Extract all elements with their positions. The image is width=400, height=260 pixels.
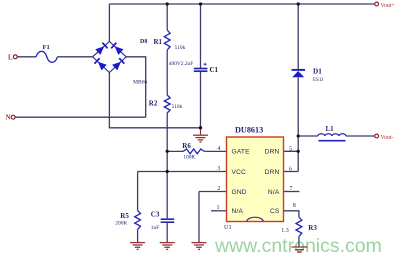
junction node pin5 xyxy=(297,150,300,153)
wire D1 column top xyxy=(297,4,299,69)
svg-text:R6: R6 xyxy=(182,142,191,150)
svg-text:200K: 200K xyxy=(115,220,127,226)
bridge diode upper-right xyxy=(111,43,123,55)
wire drain down to pins 5 and 6 xyxy=(284,136,299,172)
bridge diode lower-left xyxy=(95,58,107,70)
wire R1 column top xyxy=(166,4,168,30)
svg-text:L: L xyxy=(8,53,13,61)
svg-text:N/A: N/A xyxy=(232,208,244,215)
svg-text:CS: CS xyxy=(270,208,280,215)
bridge diode lower-right xyxy=(112,58,124,70)
svg-text:400V2.2uF: 400V2.2uF xyxy=(169,61,193,67)
svg-text:6: 6 xyxy=(289,167,292,173)
svg-text:Vout-: Vout- xyxy=(381,135,394,141)
wire R5 to ground xyxy=(137,229,139,242)
wire drain node to L1 xyxy=(298,135,318,137)
svg-text:L1: L1 xyxy=(326,125,335,133)
svg-text:ES1J: ES1J xyxy=(313,78,323,83)
svg-text:U1: U1 xyxy=(224,224,232,231)
svg-text:R3: R3 xyxy=(308,224,317,232)
wire top rail xyxy=(109,3,374,5)
svg-text:1: 1 xyxy=(217,205,220,211)
wire L input to fuse xyxy=(17,56,36,58)
inductor L1 xyxy=(318,125,346,141)
bridge rectifier MB6b diamond xyxy=(93,42,127,73)
diode D1 ES1J xyxy=(292,68,324,83)
svg-text:8: 8 xyxy=(293,203,296,209)
svg-text:Vout+: Vout+ xyxy=(381,3,395,9)
wire bridge right corner xyxy=(126,57,146,117)
junction node top rail at D1 xyxy=(297,2,300,5)
svg-text:3: 3 xyxy=(217,166,220,172)
wire R1 to R2 xyxy=(166,50,168,95)
ground under C3 xyxy=(160,243,175,250)
terminal Vout- xyxy=(375,134,394,141)
wire GND pin 2 xyxy=(199,192,227,243)
svg-text:1.3: 1.3 xyxy=(281,228,289,234)
svg-text:N: N xyxy=(6,114,11,122)
svg-text:D8: D8 xyxy=(140,39,147,45)
junction node top rail at R1 xyxy=(166,2,169,5)
svg-text:R1: R1 xyxy=(154,38,163,46)
wire R3 to ground xyxy=(298,237,300,247)
svg-text:4: 4 xyxy=(217,146,220,152)
wire C3 branch xyxy=(166,172,168,219)
svg-text:F1: F1 xyxy=(43,44,50,51)
junction node top rail at C1 xyxy=(199,2,202,5)
terminal L xyxy=(8,53,17,61)
svg-text:7: 7 xyxy=(290,186,293,192)
svg-text:DRN: DRN xyxy=(265,169,280,176)
terminal Vout+ xyxy=(375,2,395,9)
wire N input xyxy=(15,116,146,118)
wire C1 bottom to ground node xyxy=(200,72,202,128)
fuse F1 xyxy=(36,51,58,62)
wire D1 to drain node xyxy=(297,78,299,137)
resistor R1 xyxy=(154,30,186,51)
resistor R5 xyxy=(115,210,140,229)
capacitor C3 xyxy=(151,211,174,231)
svg-text:D1: D1 xyxy=(313,68,322,76)
svg-text:C3: C3 xyxy=(151,211,160,219)
svg-text:2: 2 xyxy=(217,186,220,192)
svg-text:MB6b: MB6b xyxy=(133,79,148,85)
svg-text:R2: R2 xyxy=(149,100,158,108)
svg-text:510k: 510k xyxy=(172,104,183,110)
wire fuse to bridge left xyxy=(58,56,93,58)
wire bridge top to rail xyxy=(108,4,110,42)
capacitor C1 xyxy=(169,61,219,74)
resistor R3 xyxy=(281,217,317,237)
wire VCC pin 3 xyxy=(138,171,227,173)
svg-text:R5: R5 xyxy=(120,212,129,220)
watermark www.cntronics.com xyxy=(215,235,400,258)
svg-text:VCC: VCC xyxy=(232,169,247,176)
ground under R3 xyxy=(291,247,307,252)
svg-text:510k: 510k xyxy=(175,45,186,51)
wire C3 to ground xyxy=(166,223,168,242)
terminal N xyxy=(6,114,16,122)
wire R2 to VCC node xyxy=(166,113,168,172)
svg-text:N/A: N/A xyxy=(268,189,280,196)
wire pin 1 stub xyxy=(211,210,227,212)
wire bridge bottom to ground rail xyxy=(109,73,200,128)
wire R6 tap to gate xyxy=(167,150,226,152)
junction node R6 tap xyxy=(166,150,169,153)
bridge diode upper-left xyxy=(95,43,107,55)
wire VCC down to R5 xyxy=(137,172,139,211)
ground under R5 xyxy=(130,243,145,250)
ground earth at C1 bottom node xyxy=(193,128,208,142)
wire L1 to Vout- terminal xyxy=(346,135,375,137)
junction node ground rail at C1 xyxy=(199,126,202,129)
wire C1 column top xyxy=(200,4,202,68)
svg-text:GND: GND xyxy=(232,189,247,196)
svg-text:C1: C1 xyxy=(210,66,219,74)
resistor R2 xyxy=(149,95,183,113)
svg-text:5: 5 xyxy=(289,147,292,153)
svg-text:1nF: 1nF xyxy=(151,225,159,231)
svg-text:DRN: DRN xyxy=(265,149,280,156)
wire pin 7 stub xyxy=(284,191,300,193)
svg-text:GATE: GATE xyxy=(232,149,251,156)
junction node VCC xyxy=(166,170,169,173)
junction node drain xyxy=(297,134,300,137)
svg-text:100R: 100R xyxy=(183,154,195,160)
wire CS pin 8 to R3 xyxy=(284,211,299,217)
svg-text:DU8613: DU8613 xyxy=(235,126,263,135)
IC U1 DU8613 body xyxy=(227,137,284,222)
resistor R6 xyxy=(182,142,204,160)
ground under GND pin xyxy=(192,243,207,250)
